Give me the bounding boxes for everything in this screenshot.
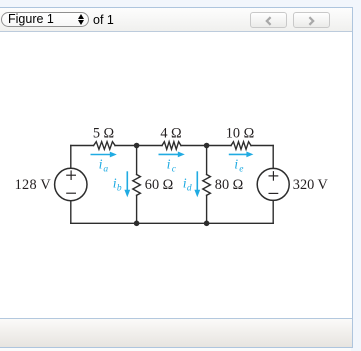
voltage source V2 circle	[257, 168, 289, 200]
current arrow ib head	[124, 190, 130, 198]
wire branch1 lower	[136, 195, 138, 223]
wire top mid2	[181, 145, 231, 147]
current arrow ie head	[246, 152, 253, 158]
svg-text:4 Ω: 4 Ω	[160, 126, 181, 142]
voltage source V1 circle	[55, 168, 87, 200]
wire right lower	[272, 200, 274, 223]
current arrow ia shaft	[91, 154, 111, 156]
wire top mid1	[115, 145, 162, 147]
resistor R1 5ohm	[94, 142, 115, 150]
current arrow ia head	[110, 152, 117, 158]
svg-text:320 V: 320 V	[293, 177, 329, 193]
current arrow ib shaft	[126, 171, 128, 190]
label id	[183, 177, 192, 194]
label ia	[99, 158, 109, 175]
current arrow id shaft	[196, 171, 198, 190]
V2 plus sign	[269, 171, 279, 181]
node D dot	[204, 221, 210, 227]
svg-text:i: i	[167, 158, 171, 173]
wire right upper	[272, 146, 274, 169]
resistor R2 4ohm	[162, 142, 181, 150]
label ie	[234, 158, 243, 175]
label ic	[167, 158, 177, 175]
node B dot	[204, 143, 210, 149]
resistor R3 10ohm	[231, 142, 251, 150]
wire branch2 lower	[206, 195, 208, 223]
V2 minus sign	[269, 192, 279, 194]
svg-text:i: i	[234, 158, 238, 173]
current arrow ic head	[178, 152, 185, 158]
current arrow ie shaft	[229, 153, 247, 155]
V1 minus sign	[66, 192, 76, 194]
svg-text:128 V: 128 V	[15, 177, 52, 193]
wire top right	[251, 145, 273, 147]
svg-text:i: i	[99, 158, 103, 173]
wire left lower	[70, 201, 72, 224]
svg-text:c: c	[172, 165, 177, 175]
wire top left	[71, 145, 94, 147]
svg-text:80 Ω: 80 Ω	[215, 177, 244, 193]
svg-text:b: b	[117, 184, 122, 194]
label ib	[113, 177, 122, 194]
wire bottom	[71, 222, 273, 224]
svg-text:10 Ω: 10 Ω	[226, 126, 255, 142]
svg-text:5 Ω: 5 Ω	[93, 126, 114, 142]
current arrow ic shaft	[159, 153, 179, 155]
svg-text:d: d	[187, 184, 192, 194]
resistor R4 60ohm	[133, 175, 141, 196]
current arrow id head	[194, 190, 200, 198]
wire branch1 upper	[136, 146, 138, 175]
node A dot	[134, 143, 140, 149]
wire branch2 upper	[206, 146, 208, 175]
node C dot	[134, 221, 140, 227]
wire left upper	[70, 146, 72, 169]
svg-text:60 Ω: 60 Ω	[145, 177, 174, 193]
V1 plus sign	[66, 170, 76, 180]
svg-text:a: a	[103, 165, 108, 175]
resistor R5 80ohm	[203, 175, 211, 196]
svg-text:e: e	[239, 165, 243, 175]
